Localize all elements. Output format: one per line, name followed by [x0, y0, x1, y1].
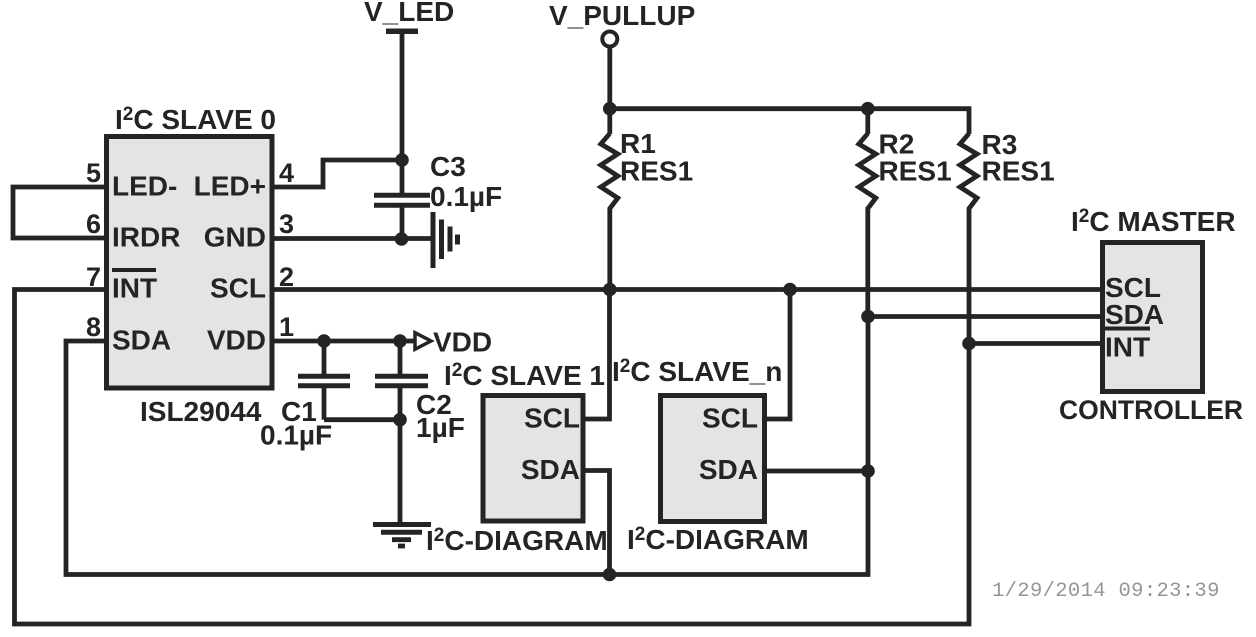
resistor R1 [601, 134, 618, 290]
svg-text:I2C-DIAGRAM: I2C-DIAGRAM [426, 525, 608, 556]
capacitor C2 [398, 341, 403, 376]
wire GND pin3 to chassis ground [272, 236, 433, 241]
svg-text:I2C SLAVE_n: I2C SLAVE_n [612, 356, 782, 387]
svg-text:SCL: SCL [524, 403, 580, 434]
svg-text:1/29/2014 09:23:39: 1/29/2014 09:23:39 [992, 580, 1220, 603]
wire pullup bus to R3 top [610, 109, 969, 134]
junction slave1 SDA / bottom run [603, 568, 617, 582]
wire V_PULLUP down to R1 [607, 47, 612, 135]
wire slave1 SDA down to SDA bottom run [585, 471, 610, 575]
wire INT net: pin7 left, down, bottom run, up to master INT [15, 290, 1101, 625]
wire slave_n SDA to SDA vertical [767, 469, 868, 474]
power terminal V_PULLUP [602, 32, 617, 47]
junction R2 top [861, 102, 875, 116]
svg-text:C3: C3 [430, 151, 466, 182]
wire SDA net: pin8 left, down, bottom run, up to master SDA [66, 317, 1100, 575]
svg-text:V_LED: V_LED [364, 0, 454, 27]
svg-text:0.1µF: 0.1µF [430, 181, 502, 212]
svg-text:I2C SLAVE 1: I2C SLAVE 1 [444, 360, 605, 391]
svg-text:RES1: RES1 [620, 156, 693, 187]
svg-text:RES1: RES1 [982, 156, 1055, 187]
junction V_PULLUP bus [603, 102, 617, 116]
wire LED- to IRDR loop [13, 187, 106, 238]
svg-text:6: 6 [86, 209, 101, 239]
svg-text:SDA: SDA [699, 454, 758, 485]
wire C3 bottom to GND line [400, 206, 405, 240]
IC U4 I2C MASTER box [1103, 243, 1203, 392]
svg-text:1µF: 1µF [416, 412, 465, 443]
IC U1 I2C SLAVE 0 box [107, 137, 273, 389]
svg-text:4: 4 [279, 158, 294, 188]
svg-text:1: 1 [279, 312, 294, 342]
svg-text:INT: INT [1105, 332, 1150, 363]
wire slave1 SCL up to SCL net [585, 290, 610, 420]
resistor R3 [960, 134, 977, 344]
resistor R2 [859, 134, 876, 317]
svg-text:I2C-DIAGRAM: I2C-DIAGRAM [627, 524, 809, 555]
svg-text:SCL: SCL [702, 403, 758, 434]
junction slave_n SDA [861, 464, 875, 478]
wire LED+ pin4 to V_LED node [272, 160, 402, 187]
wire SCL net: pin2 to master SCL [272, 287, 1100, 292]
svg-text:V_PULLUP: V_PULLUP [549, 0, 695, 31]
VDD arrow symbol [415, 333, 431, 350]
svg-text:INT: INT [112, 273, 157, 304]
svg-text:VDD: VDD [433, 327, 492, 358]
wire R2 top drop [865, 109, 870, 134]
svg-text:R1: R1 [620, 128, 656, 159]
svg-text:I2C SLAVE 0: I2C SLAVE 0 [115, 104, 276, 135]
junction VDD / C1 [317, 334, 331, 348]
svg-text:LED+: LED+ [194, 171, 266, 202]
wire VDD pin1 to VDD arrow [272, 339, 417, 344]
svg-text:CONTROLLER: CONTROLLER [1059, 395, 1243, 425]
svg-text:I2C MASTER: I2C MASTER [1071, 206, 1236, 237]
junction GND / C3 [395, 232, 409, 246]
junction C1-C2 bottom [393, 413, 407, 427]
junction SDA / R2 [861, 310, 875, 324]
junction INT / R3 [962, 337, 976, 351]
svg-text:IRDR: IRDR [112, 222, 180, 253]
svg-text:GND: GND [204, 222, 266, 253]
svg-text:SDA: SDA [112, 325, 171, 356]
svg-text:LED-: LED- [112, 171, 177, 202]
junction V_LED / LED+ [395, 153, 409, 167]
svg-text:8: 8 [86, 312, 101, 342]
chassis ground (C3) [431, 212, 436, 268]
svg-text:SDA: SDA [521, 454, 580, 485]
capacitor C1 [322, 341, 327, 376]
wire slave_n SCL up to SCL net [767, 290, 790, 420]
power symbol V_LED [386, 29, 418, 35]
svg-text:0.1µF: 0.1µF [260, 420, 332, 451]
earth ground (C2) [373, 522, 431, 527]
junction SCL / R1 [603, 283, 617, 297]
wire C1 bottom to C2 bottom [324, 417, 400, 422]
capacitor C3 plates [374, 193, 430, 198]
svg-text:3: 3 [279, 209, 294, 239]
svg-text:5: 5 [86, 158, 101, 188]
svg-text:SCL: SCL [210, 273, 266, 304]
IC U3 I2C SLAVE_n box [661, 396, 765, 522]
wire V_LED to C3 top [400, 33, 405, 194]
svg-text:RES1: RES1 [879, 156, 952, 187]
svg-text:ISL29044: ISL29044 [140, 396, 262, 427]
junction VDD / C2 [393, 334, 407, 348]
IC U2 I2C SLAVE 1 box [483, 396, 583, 522]
svg-text:SDA: SDA [1105, 299, 1164, 330]
svg-text:VDD: VDD [207, 325, 266, 356]
junction SCL / slave_n SCL [783, 283, 797, 297]
